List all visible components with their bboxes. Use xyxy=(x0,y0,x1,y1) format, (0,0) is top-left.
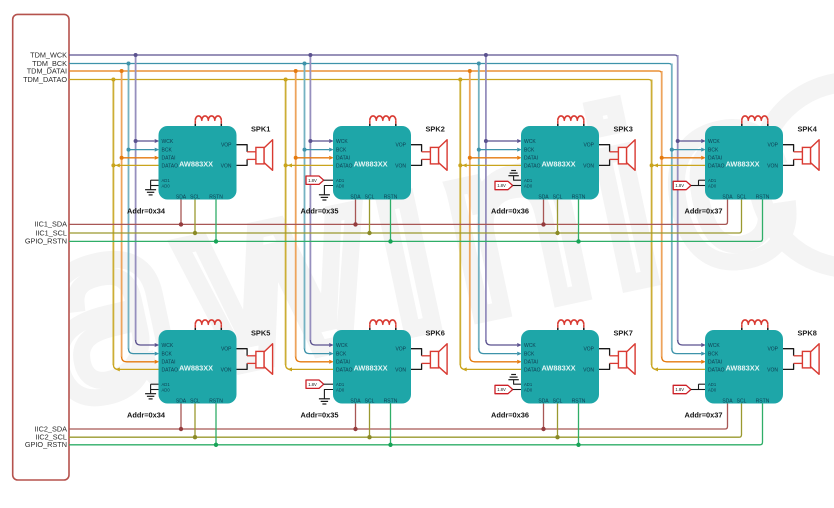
svg-text:SPK3: SPK3 xyxy=(614,125,633,134)
wire AD0 U5 to ground xyxy=(151,389,159,391)
op-amp U8 AW883XX amplifier xyxy=(705,330,783,404)
junction WCK col3 xyxy=(484,139,488,143)
svg-text:DATAI: DATAI xyxy=(336,360,350,366)
wire RSTN stub U3 xyxy=(578,200,580,242)
svg-text:AD0: AD0 xyxy=(708,183,717,188)
junction gold TDM_DATAO bus col2 xyxy=(284,78,288,82)
svg-text:1.8V: 1.8V xyxy=(308,178,317,183)
wire SDA stub U1 xyxy=(180,200,182,225)
inductor L1 xyxy=(194,120,196,124)
junction DATAO col2 xyxy=(284,163,288,167)
wire SCL stub U2 xyxy=(369,200,371,234)
junction orange TDM_DATAI bus col1 xyxy=(120,69,124,73)
svg-text:GPIO_RSTN: GPIO_RSTN xyxy=(25,237,67,246)
svg-text:AD0: AD0 xyxy=(162,183,171,188)
wire VON U3 to SPK3 xyxy=(599,159,610,165)
svg-text:DATAI: DATAI xyxy=(162,360,176,366)
wire AD1 U1 to ground xyxy=(151,179,159,181)
wire DATAI to U7 xyxy=(470,357,517,362)
junction gold TDM_DATAO bus col3 xyxy=(458,78,462,82)
speaker SPK8 xyxy=(802,351,810,368)
wire IIC1_SCL bus xyxy=(69,200,742,234)
junction RSTN U7 xyxy=(576,443,580,447)
wire WCK to U8 xyxy=(678,340,702,345)
junction SCL U6 xyxy=(367,435,371,439)
wire BCK to U5 xyxy=(129,349,155,354)
svg-text:SCL: SCL xyxy=(737,398,747,404)
wire purple TDM_WCK drop col3 xyxy=(485,55,487,341)
wire purple TDM_WCK drop col2 xyxy=(309,55,311,341)
speaker SPK2 xyxy=(430,147,438,164)
wire DATAI to U5 xyxy=(122,357,155,362)
junction SCL U2 xyxy=(367,231,371,235)
wire SDA stub U7 xyxy=(543,404,545,430)
wire TDM_DATAO bus xyxy=(69,80,652,83)
svg-text:AW883XX: AW883XX xyxy=(542,364,576,373)
wire VON U1 to SPK1 xyxy=(237,159,248,165)
wire WCK to U2 xyxy=(310,140,329,142)
power 1.8V flag U3 xyxy=(495,181,513,189)
wire AD1 U6 to 1.8V xyxy=(324,383,333,385)
wire orange TDM_DATAI drop col4 xyxy=(661,71,663,357)
svg-text:SCL: SCL xyxy=(553,194,563,200)
ground U6 xyxy=(319,398,330,400)
svg-text:WCK: WCK xyxy=(524,343,536,349)
svg-text:DATAO: DATAO xyxy=(336,163,353,169)
wire VOP U2 to SPK2 xyxy=(411,145,422,152)
svg-text:VOP: VOP xyxy=(767,347,778,353)
svg-text:1.8V: 1.8V xyxy=(675,387,684,392)
svg-text:1.8V: 1.8V xyxy=(308,382,317,387)
svg-text:AD0: AD0 xyxy=(336,183,345,188)
speaker SPK1 xyxy=(256,147,264,164)
wire AD1 U7 to ground xyxy=(514,380,521,385)
wire BCK to U6 xyxy=(305,349,330,354)
wire gold TDM_DATAO drop col2 xyxy=(285,80,287,365)
junction SDA U7 xyxy=(541,427,545,431)
wire 1.8V to AD pins U8 xyxy=(691,389,705,391)
svg-text:AD1: AD1 xyxy=(162,178,171,183)
svg-text:AD1: AD1 xyxy=(524,382,533,387)
junction purple TDM_WCK bus col3 xyxy=(484,53,488,57)
svg-text:SDA: SDA xyxy=(538,398,549,404)
wire purple TDM_WCK drop col1 xyxy=(135,55,137,341)
svg-text:AD1: AD1 xyxy=(336,178,345,183)
wire orange TDM_DATAI drop col2 xyxy=(295,71,297,357)
svg-text:SDA: SDA xyxy=(350,398,361,404)
junction SDA U2 xyxy=(353,222,357,226)
junction BCK col3 xyxy=(477,148,481,152)
svg-text:AW883XX: AW883XX xyxy=(179,364,213,373)
junction DATAI col2 xyxy=(294,156,298,160)
svg-text:RSTN: RSTN xyxy=(756,398,770,404)
wire VOP U5 to SPK5 xyxy=(237,349,248,356)
svg-text:RSTN: RSTN xyxy=(384,194,398,200)
wire DATAO from U3 xyxy=(462,164,521,166)
wire IIC1_SDA bus xyxy=(69,200,728,225)
host connector box xyxy=(13,14,69,480)
wire IIC2_SCL bus xyxy=(69,404,742,438)
svg-text:DATAI: DATAI xyxy=(524,360,538,366)
wire teal TDM_BCK drop col3 xyxy=(478,64,480,350)
svg-text:SDA: SDA xyxy=(176,398,187,404)
svg-text:WCK: WCK xyxy=(162,139,174,145)
svg-text:BCK: BCK xyxy=(162,148,173,154)
svg-text:VON: VON xyxy=(767,163,778,169)
svg-text:WCK: WCK xyxy=(524,139,536,145)
wire DATAO from U1 xyxy=(115,164,159,166)
svg-text:Addr=0x35: Addr=0x35 xyxy=(301,411,339,420)
wire SDA stub U3 xyxy=(543,200,545,225)
junction SDA U3 xyxy=(541,222,545,226)
svg-text:SCL: SCL xyxy=(365,398,375,404)
svg-text:WCK: WCK xyxy=(336,139,348,145)
wire DATAI to U8 xyxy=(662,357,702,362)
svg-text:Addr=0x36: Addr=0x36 xyxy=(491,411,529,420)
wire BCK to U3 xyxy=(479,149,517,151)
ground U5 xyxy=(145,393,156,395)
wire teal TDM_BCK drop col1 xyxy=(128,64,130,350)
junction purple TDM_WCK bus col2 xyxy=(308,53,312,57)
inductor L7 xyxy=(557,324,559,328)
wire teal TDM_BCK drop col4 xyxy=(671,64,673,350)
svg-text:AW883XX: AW883XX xyxy=(354,364,388,373)
svg-text:Addr=0x35: Addr=0x35 xyxy=(301,207,339,216)
junction purple TDM_WCK bus col1 xyxy=(134,53,138,57)
wire VON U7 to SPK7 xyxy=(599,363,610,369)
op-amp U7 AW883XX amplifier xyxy=(521,330,599,404)
wire SCL stub U6 xyxy=(369,404,371,438)
svg-text:VOP: VOP xyxy=(767,143,778,149)
wire RSTN stub U1 xyxy=(215,200,217,242)
svg-text:1.8V: 1.8V xyxy=(675,183,684,188)
wire IIC1 GPIO_RSTN bus xyxy=(69,200,763,242)
svg-text:VON: VON xyxy=(221,163,232,169)
svg-text:AD1: AD1 xyxy=(708,382,717,387)
wire VON U6 to SPK6 xyxy=(411,363,422,369)
wire DATAO from U6 xyxy=(286,364,333,369)
svg-text:SPK7: SPK7 xyxy=(614,329,633,338)
junction RSTN U3 xyxy=(576,239,580,243)
svg-text:SCL: SCL xyxy=(190,194,200,200)
svg-text:VOP: VOP xyxy=(583,347,594,353)
wire orange TDM_DATAI drop col3 xyxy=(469,71,471,357)
ground U3 (inverted) xyxy=(508,175,518,177)
svg-text:VOP: VOP xyxy=(583,143,594,149)
svg-text:Addr=0x37: Addr=0x37 xyxy=(685,411,723,420)
wire BCK to U4 xyxy=(672,149,701,151)
wire 1.8V to AD pins U4 xyxy=(691,185,705,187)
junction DATAI col3 xyxy=(468,156,472,160)
wire WCK to U6 xyxy=(310,340,329,345)
junction orange TDM_DATAI bus col3 xyxy=(468,69,472,73)
wire SCL stub U7 xyxy=(557,404,559,438)
junction RSTN U2 xyxy=(388,239,392,243)
svg-text:DATAO: DATAO xyxy=(524,163,541,169)
svg-text:VON: VON xyxy=(767,367,778,373)
wire BCK to U8 xyxy=(672,349,701,354)
wire AD0 U3 to 1.8V xyxy=(513,185,521,187)
svg-text:BCK: BCK xyxy=(336,148,347,154)
wire BCK to U7 xyxy=(479,349,517,354)
wire VOP U7 to SPK7 xyxy=(599,349,610,356)
svg-text:Addr=0x36: Addr=0x36 xyxy=(491,207,529,216)
op-amp U2 AW883XX amplifier xyxy=(333,126,411,200)
svg-text:Addr=0x37: Addr=0x37 xyxy=(685,207,723,216)
svg-text:VON: VON xyxy=(583,163,594,169)
junction SDA U6 xyxy=(353,427,357,431)
wire SDA stub U2 xyxy=(355,200,357,225)
wire TDM_BCK bus xyxy=(69,64,672,67)
svg-text:AD0: AD0 xyxy=(162,387,171,392)
svg-text:RSTN: RSTN xyxy=(209,194,223,200)
wire DATAO from U8 xyxy=(652,364,705,369)
junction SCL U1 xyxy=(193,231,197,235)
wire DATAO from U2 xyxy=(287,164,333,166)
svg-text:RSTN: RSTN xyxy=(572,398,586,404)
ground U1 xyxy=(145,189,156,191)
junction WCK col4 xyxy=(676,139,680,143)
op-amp U5 AW883XX amplifier xyxy=(159,330,237,404)
junction WCK col1 xyxy=(134,139,138,143)
svg-text:RSTN: RSTN xyxy=(572,194,586,200)
power 1.8V flag U8 xyxy=(673,385,691,393)
wire SDA stub U5 xyxy=(180,404,182,430)
junction SDA U5 xyxy=(179,427,183,431)
junction RSTN U1 xyxy=(214,239,218,243)
svg-text:AW883XX: AW883XX xyxy=(354,160,388,169)
svg-text:WCK: WCK xyxy=(708,139,720,145)
inductor L3 xyxy=(557,120,559,124)
wire WCK to U5 xyxy=(136,340,155,345)
wire gold TDM_DATAO drop col4 xyxy=(651,80,653,365)
wire WCK to U3 xyxy=(486,140,517,142)
wire SDA stub U6 xyxy=(355,404,357,430)
wire AD0 U1 to ground xyxy=(151,185,159,187)
junction DATAO col3 xyxy=(458,163,462,167)
svg-text:DATAO: DATAO xyxy=(708,163,725,169)
wire WCK to U1 xyxy=(136,140,155,142)
svg-text:DATAI: DATAI xyxy=(336,156,350,162)
junction DATAO col4 xyxy=(650,163,654,167)
svg-text:AD0: AD0 xyxy=(524,387,533,392)
svg-text:SDA: SDA xyxy=(722,194,733,200)
svg-text:VON: VON xyxy=(221,367,232,373)
svg-text:SCL: SCL xyxy=(365,194,375,200)
svg-text:GPIO_RSTN: GPIO_RSTN xyxy=(25,440,67,449)
svg-text:VON: VON xyxy=(395,163,406,169)
wire VOP U3 to SPK3 xyxy=(599,145,610,152)
junction teal TDM_BCK bus col1 xyxy=(127,62,131,66)
svg-text:WCK: WCK xyxy=(162,343,174,349)
svg-text:SCL: SCL xyxy=(737,194,747,200)
svg-text:AD1: AD1 xyxy=(708,178,717,183)
svg-text:DATAO: DATAO xyxy=(336,367,353,373)
svg-text:WCK: WCK xyxy=(336,343,348,349)
speaker SPK7 xyxy=(618,351,626,368)
svg-text:VOP: VOP xyxy=(221,143,232,149)
wire DATAI to U2 xyxy=(296,157,330,159)
svg-text:DATAO: DATAO xyxy=(708,367,725,373)
svg-text:RSTN: RSTN xyxy=(209,398,223,404)
wire SCL stub U1 xyxy=(194,200,196,234)
svg-text:TDM_DATAO: TDM_DATAO xyxy=(23,75,67,84)
speaker SPK4 xyxy=(802,147,810,164)
inductor L8 xyxy=(741,324,743,328)
svg-text:Addr=0x34: Addr=0x34 xyxy=(127,207,166,216)
svg-text:BCK: BCK xyxy=(708,148,719,154)
svg-text:SCL: SCL xyxy=(190,398,200,404)
svg-text:AD0: AD0 xyxy=(524,183,533,188)
svg-text:AD0: AD0 xyxy=(336,387,345,392)
svg-text:DATAO: DATAO xyxy=(524,367,541,373)
wire DATAI to U3 xyxy=(470,157,517,159)
ground U7 (inverted) xyxy=(508,379,518,381)
speaker SPK3 xyxy=(618,147,626,164)
wire RSTN stub U5 xyxy=(215,404,217,445)
wire VON U8 to SPK8 xyxy=(783,363,794,369)
wire AD1 U5 to ground xyxy=(151,383,159,385)
svg-text:VON: VON xyxy=(395,367,406,373)
junction teal TDM_BCK bus col2 xyxy=(303,62,307,66)
junction BCK col2 xyxy=(303,148,307,152)
svg-text:BCK: BCK xyxy=(524,352,535,358)
wire VOP U1 to SPK1 xyxy=(237,145,248,152)
inductor L5 xyxy=(194,324,196,328)
wire DATAO from U4 xyxy=(653,164,705,166)
svg-text:AW883XX: AW883XX xyxy=(726,364,760,373)
wire TDM_WCK bus xyxy=(69,55,678,58)
wire AD1 U2 to 1.8V xyxy=(324,179,333,181)
svg-text:AW883XX: AW883XX xyxy=(179,160,213,169)
svg-text:SPK4: SPK4 xyxy=(798,125,818,134)
svg-text:DATAO: DATAO xyxy=(162,163,179,169)
svg-text:DATAI: DATAI xyxy=(708,360,722,366)
svg-text:DATAI: DATAI xyxy=(162,156,176,162)
junction DATAI col1 xyxy=(120,156,124,160)
svg-text:AW883XX: AW883XX xyxy=(726,160,760,169)
svg-text:WCK: WCK xyxy=(708,343,720,349)
junction DATAO col1 xyxy=(111,163,115,167)
svg-text:BCK: BCK xyxy=(162,352,173,358)
wire AD0 U6 to ground xyxy=(324,390,333,399)
wire gold TDM_DATAO drop col3 xyxy=(459,80,461,365)
wire AD0 U2 to ground xyxy=(324,186,333,195)
op-amp U3 AW883XX amplifier xyxy=(521,126,599,200)
wire RSTN stub U2 xyxy=(390,200,392,242)
wire SCL stub U5 xyxy=(194,404,196,438)
wire VOP U4 to SPK4 xyxy=(783,145,794,152)
svg-text:RSTN: RSTN xyxy=(384,398,398,404)
junction teal TDM_BCK bus col3 xyxy=(477,62,481,66)
svg-text:AD1: AD1 xyxy=(524,178,533,183)
junction RSTN U6 xyxy=(388,443,392,447)
wire IIC2 GPIO_RSTN bus xyxy=(69,404,763,445)
junction BCK col4 xyxy=(670,148,674,152)
svg-text:SPK6: SPK6 xyxy=(426,329,445,338)
wire RSTN stub U6 xyxy=(390,404,392,445)
wire AD1 U3 to ground xyxy=(514,176,521,181)
wire VON U2 to SPK2 xyxy=(411,159,422,165)
power 1.8V flag U2 xyxy=(306,176,324,184)
junction gold TDM_DATAO bus col1 xyxy=(111,78,115,82)
svg-text:DATAI: DATAI xyxy=(524,156,538,162)
wire teal TDM_BCK drop col2 xyxy=(304,64,306,350)
wire VON U4 to SPK4 xyxy=(783,159,794,165)
wire TDM_DATAI bus xyxy=(69,71,662,74)
inductor L4 xyxy=(741,120,743,124)
svg-text:SDA: SDA xyxy=(538,194,549,200)
svg-text:RSTN: RSTN xyxy=(756,194,770,200)
junction orange TDM_DATAI bus col2 xyxy=(294,69,298,73)
speaker SPK5 xyxy=(256,351,264,368)
power 1.8V flag U6 xyxy=(306,380,324,388)
junction BCK col1 xyxy=(127,148,131,152)
ground U2 xyxy=(319,194,330,196)
inductor L2 xyxy=(369,120,371,124)
svg-text:AD0: AD0 xyxy=(708,387,717,392)
svg-text:AD1: AD1 xyxy=(336,382,345,387)
svg-text:AD1: AD1 xyxy=(162,382,171,387)
svg-text:SPK5: SPK5 xyxy=(251,329,270,338)
wire WCK to U4 xyxy=(678,140,702,142)
wire VOP U8 to SPK8 xyxy=(783,349,794,356)
wire VOP U6 to SPK6 xyxy=(411,349,422,356)
svg-text:1.8V: 1.8V xyxy=(497,183,506,188)
svg-text:SPK1: SPK1 xyxy=(251,125,270,134)
junction WCK col2 xyxy=(308,139,312,143)
svg-text:VON: VON xyxy=(583,367,594,373)
wire AD0 U7 to 1.8V xyxy=(513,389,521,391)
svg-text:1.8V: 1.8V xyxy=(497,387,506,392)
svg-text:VOP: VOP xyxy=(395,143,406,149)
inductor L6 xyxy=(369,324,371,328)
wire DATAI to U4 xyxy=(662,157,702,159)
junction SDA U1 xyxy=(179,222,183,226)
junction SCL U7 xyxy=(555,435,559,439)
wire BCK to U1 xyxy=(129,149,155,151)
svg-text:BCK: BCK xyxy=(336,352,347,358)
svg-text:VOP: VOP xyxy=(395,347,406,353)
svg-text:Addr=0x34: Addr=0x34 xyxy=(127,411,166,420)
wire WCK to U7 xyxy=(486,340,517,345)
svg-text:SDA: SDA xyxy=(350,194,361,200)
svg-text:DATAI: DATAI xyxy=(708,156,722,162)
svg-text:DATAO: DATAO xyxy=(162,367,179,373)
speaker SPK6 xyxy=(430,351,438,368)
svg-text:AW883XX: AW883XX xyxy=(542,160,576,169)
wire purple TDM_WCK drop col4 xyxy=(677,55,679,341)
wire DATAI to U6 xyxy=(296,357,330,362)
svg-text:SDA: SDA xyxy=(722,398,733,404)
wire gold TDM_DATAO drop col1 xyxy=(112,80,114,365)
op-amp U4 AW883XX amplifier xyxy=(705,126,783,200)
wire DATAI to U1 xyxy=(122,157,155,159)
svg-text:BCK: BCK xyxy=(708,352,719,358)
svg-text:SDA: SDA xyxy=(176,194,187,200)
svg-text:SCL: SCL xyxy=(553,398,563,404)
power 1.8V flag U7 xyxy=(495,385,513,393)
wire IIC2_SDA bus xyxy=(69,404,728,430)
svg-text:SPK2: SPK2 xyxy=(426,125,445,134)
svg-text:SPK8: SPK8 xyxy=(798,329,817,338)
junction SCL U5 xyxy=(193,435,197,439)
wire DATAO from U5 xyxy=(113,364,158,369)
wire SCL stub U3 xyxy=(557,200,559,234)
op-amp U6 AW883XX amplifier xyxy=(333,330,411,404)
junction DATAI col4 xyxy=(660,156,664,160)
junction SCL U3 xyxy=(555,231,559,235)
